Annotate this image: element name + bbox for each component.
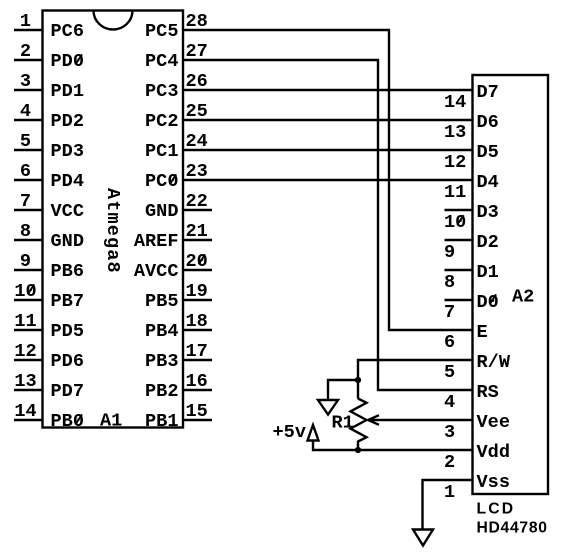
svg-text:+5v: +5v	[273, 422, 306, 443]
+5v supply symbol	[308, 425, 319, 441]
svg-text:PC1: PC1	[145, 141, 178, 162]
svg-text:PC3: PC3	[145, 81, 178, 102]
svg-text:PB6: PB6	[51, 261, 84, 282]
svg-text:D3: D3	[477, 202, 499, 223]
svg-text:D7: D7	[477, 82, 499, 103]
svg-text:13: 13	[14, 371, 36, 392]
svg-text:GND: GND	[145, 201, 178, 222]
svg-text:2: 2	[444, 452, 455, 473]
svg-text:3: 3	[444, 422, 455, 443]
svg-text:R1: R1	[332, 413, 354, 434]
pin 11 stub	[14, 329, 43, 331]
LCD A2 body	[473, 75, 549, 494]
pin 18 stub	[183, 329, 212, 331]
IC A1 Atmega8 body	[43, 11, 184, 428]
svg-text:11: 11	[14, 311, 36, 332]
svg-text:VCC: VCC	[51, 201, 84, 222]
svg-text:11: 11	[444, 182, 466, 203]
pin 16 stub	[183, 389, 212, 391]
svg-text:16: 16	[186, 371, 208, 392]
svg-text:4: 4	[444, 392, 455, 413]
wire PC3 pin26 to LCD D7	[183, 89, 473, 91]
svg-text:6: 6	[20, 161, 31, 182]
pin 20 stub	[183, 269, 212, 271]
svg-text:7: 7	[444, 302, 455, 323]
wire ground branch	[328, 380, 358, 400]
svg-text:RS: RS	[477, 382, 499, 403]
svg-text:D2: D2	[477, 232, 499, 253]
svg-text:12: 12	[14, 341, 36, 362]
pin 4 stub	[14, 119, 43, 121]
node junction R1 bottom on Vdd wire	[355, 447, 361, 453]
svg-text:28: 28	[186, 11, 208, 32]
pin 7 stub	[14, 209, 43, 211]
svg-text:2: 2	[20, 41, 31, 62]
svg-text:LCD: LCD	[477, 500, 516, 517]
svg-text:PD4: PD4	[51, 171, 84, 192]
svg-text:Vss: Vss	[477, 472, 510, 493]
svg-text:PC0: PC0	[145, 171, 178, 192]
pin 19 stub	[183, 299, 212, 301]
pin 6 stub	[14, 179, 43, 181]
slashed zero marks	[28, 54, 496, 424]
svg-text:8: 8	[20, 221, 31, 242]
svg-text:PB0: PB0	[51, 411, 84, 432]
svg-text:PC4: PC4	[145, 51, 178, 72]
svg-text:PD1: PD1	[51, 81, 84, 102]
svg-text:4: 4	[20, 101, 31, 122]
pin 5 stub	[14, 149, 43, 151]
svg-text:5: 5	[20, 131, 31, 152]
svg-text:3: 3	[20, 71, 31, 92]
svg-text:9: 9	[444, 242, 455, 263]
svg-text:6: 6	[444, 332, 455, 353]
svg-text:14: 14	[14, 401, 36, 422]
svg-text:PC6: PC6	[51, 21, 84, 42]
pin 22 stub	[183, 209, 212, 211]
svg-text:17: 17	[186, 341, 208, 362]
svg-text:PB7: PB7	[51, 291, 84, 312]
pin 1 stub	[14, 29, 43, 31]
svg-text:21: 21	[186, 221, 208, 242]
pin 12 stub	[14, 359, 43, 361]
svg-text:25: 25	[186, 101, 208, 122]
LCD D1 stub	[445, 269, 473, 271]
pin 15 stub	[183, 419, 212, 421]
svg-text:Vee: Vee	[477, 412, 510, 433]
svg-text:PD3: PD3	[51, 141, 84, 162]
svg-text:22: 22	[186, 191, 208, 212]
LCD D2 stub	[445, 239, 473, 241]
wiper arrow Vee to R1	[368, 415, 473, 425]
svg-text:19: 19	[186, 281, 208, 302]
svg-text:5: 5	[444, 362, 455, 383]
pin 14 stub	[14, 419, 43, 421]
pin 9 stub	[14, 269, 43, 271]
svg-text:14: 14	[444, 92, 466, 113]
pin 3 stub	[14, 89, 43, 91]
LCD D3 stub	[445, 209, 473, 211]
wire +5v to LCD Vdd	[313, 441, 473, 451]
svg-text:D5: D5	[477, 142, 499, 163]
svg-text:PB5: PB5	[145, 291, 178, 312]
svg-text:24: 24	[186, 131, 208, 152]
svg-text:PC2: PC2	[145, 111, 178, 132]
resistor R1	[351, 399, 367, 451]
svg-text:15: 15	[186, 401, 208, 422]
svg-text:1: 1	[444, 482, 455, 503]
ground symbol below LCD	[413, 530, 433, 546]
svg-text:PD6: PD6	[51, 351, 84, 372]
svg-text:A1: A1	[100, 410, 122, 431]
wire PC1 pin24 to LCD D5	[183, 149, 473, 151]
svg-text:1: 1	[20, 11, 31, 32]
svg-text:GND: GND	[51, 231, 84, 252]
LCD D0 stub	[445, 299, 473, 301]
svg-text:13: 13	[444, 122, 466, 143]
wire R/W to ground and R1 top	[358, 360, 473, 399]
pin 21 stub	[183, 239, 212, 241]
svg-text:Vdd: Vdd	[477, 442, 510, 463]
wire PC4 pin27 to LCD RS	[183, 60, 473, 390]
svg-text:PD5: PD5	[51, 321, 84, 342]
svg-text:27: 27	[186, 41, 208, 62]
svg-text:R/W: R/W	[477, 352, 511, 373]
svg-text:9: 9	[20, 251, 31, 272]
svg-text:7: 7	[20, 191, 31, 212]
svg-text:D6: D6	[477, 112, 499, 133]
svg-text:PD7: PD7	[51, 381, 84, 402]
svg-text:AREF: AREF	[134, 231, 179, 252]
svg-text:12: 12	[444, 152, 466, 173]
ground symbol near R1	[318, 400, 338, 415]
svg-text:PB2: PB2	[145, 381, 178, 402]
IC notch	[94, 11, 133, 30]
wire PC2 pin25 to LCD D6	[183, 119, 473, 121]
wire PC5 pin28 to LCD E	[183, 30, 473, 330]
pin 2 stub	[14, 59, 43, 61]
wire LCD Vss to ground	[423, 480, 473, 530]
svg-text:E: E	[477, 322, 488, 343]
svg-text:PC5: PC5	[145, 21, 178, 42]
svg-text:D1: D1	[477, 262, 499, 283]
svg-text:PB3: PB3	[145, 351, 178, 372]
svg-text:23: 23	[186, 161, 208, 182]
svg-text:PD0: PD0	[51, 51, 84, 72]
node junction R/W-R1-ground	[355, 377, 361, 383]
svg-text:18: 18	[186, 311, 208, 332]
pin 13 stub	[14, 389, 43, 391]
svg-text:8: 8	[444, 272, 455, 293]
svg-text:PD2: PD2	[51, 111, 84, 132]
svg-text:Atmega8: Atmega8	[102, 188, 123, 274]
svg-text:A2: A2	[512, 286, 534, 307]
svg-text:26: 26	[186, 71, 208, 92]
wire PC0 pin23 to LCD D4	[183, 179, 473, 181]
svg-text:D4: D4	[477, 172, 499, 193]
svg-text:PB1: PB1	[145, 411, 178, 432]
svg-text:AVCC: AVCC	[134, 261, 179, 282]
pin 17 stub	[183, 359, 212, 361]
svg-text:HD44780: HD44780	[477, 520, 548, 537]
svg-text:PB4: PB4	[145, 321, 178, 342]
pin 10 stub	[14, 299, 43, 301]
pin 8 stub	[14, 239, 43, 241]
